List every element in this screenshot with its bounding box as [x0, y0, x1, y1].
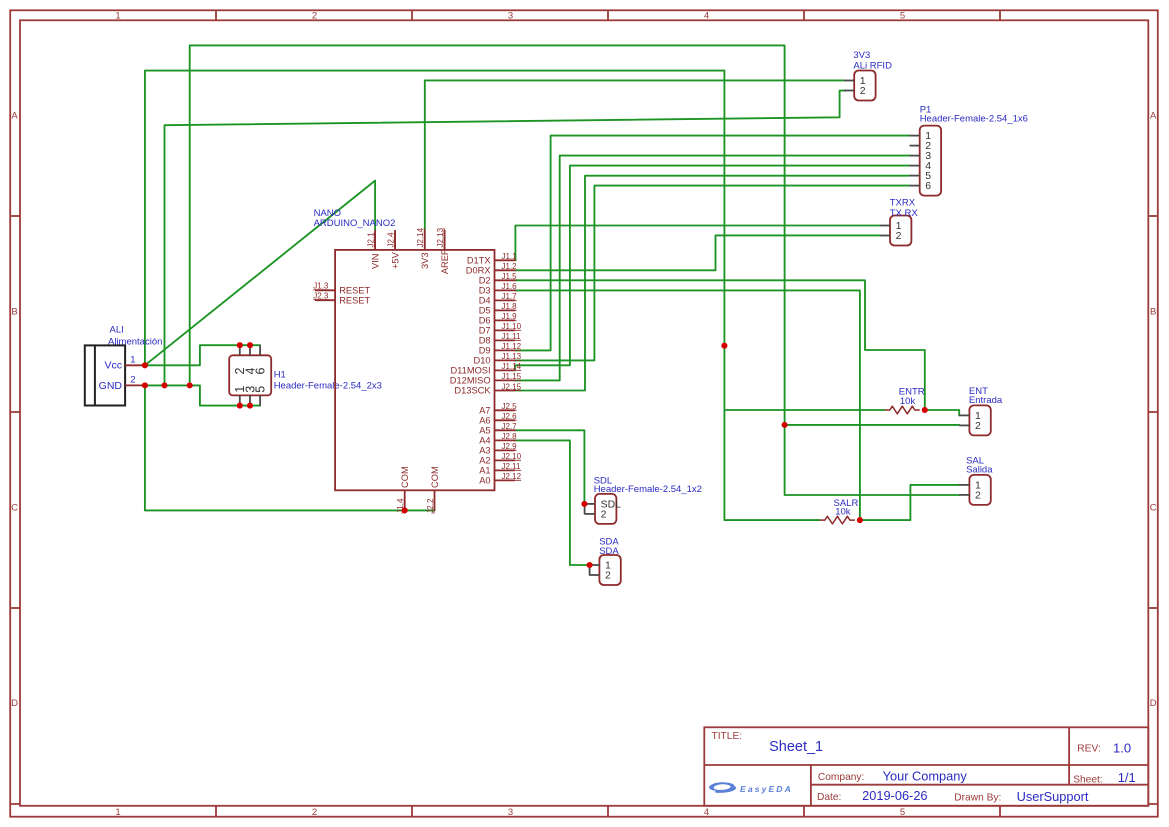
wire VIN diagonal to Vcc node: [145, 181, 375, 366]
svg-text:2: 2: [975, 490, 981, 502]
svg-text:D: D: [1150, 698, 1157, 709]
svg-text:2: 2: [312, 807, 317, 818]
junction node: [721, 343, 727, 349]
wire A5 to SDL pin1: [515, 430, 585, 504]
IC NANO ARDUINO_NANO2 body: [335, 250, 494, 490]
wire D3 to SALR-SAL node: [515, 290, 860, 520]
P1 Header-Female-2.54_1x6 pin 1: [910, 130, 932, 142]
NANO pin COM net J2.2: [426, 466, 440, 513]
wire nano 3V3 to RFID pin1: [425, 80, 845, 230]
TXRX TX RX pin 1: [880, 220, 902, 232]
NANO pin A3 net J2.9: [479, 442, 517, 455]
SDA connector pin 1: [589, 560, 611, 572]
svg-text:REV:: REV:: [1077, 743, 1100, 754]
NANO pin D10 net J1.13: [474, 352, 522, 365]
svg-text:D6: D6: [479, 316, 491, 326]
SDA connector pin 2: [589, 570, 611, 582]
svg-text:Salida: Salida: [966, 465, 993, 476]
svg-text:D10: D10: [474, 356, 491, 366]
svg-text:2: 2: [896, 230, 902, 242]
svg-text:ARDUINO_NANO2: ARDUINO_NANO2: [314, 218, 396, 229]
svg-text:Header-Female-2.54_2x3: Header-Female-2.54_2x3: [274, 381, 382, 392]
wire D1TX to TXRX pin1: [515, 226, 879, 261]
wire GND row up-over to ENT pin2 node: [190, 45, 785, 425]
title block texts: [712, 731, 1103, 804]
svg-text:3V3: 3V3: [420, 252, 430, 269]
svg-text:D2: D2: [479, 276, 491, 286]
connector ALI (Alimentacion): [85, 345, 125, 405]
svg-text:1.0: 1.0: [1113, 740, 1131, 755]
svg-text:TITLE:: TITLE:: [712, 731, 743, 742]
NANO pin A1 net J2.11: [479, 462, 521, 475]
NANO pin A5 net J2.7: [479, 422, 517, 435]
wire node to ENT pin2: [785, 424, 960, 426]
NANO pin D9 net J1.12: [479, 342, 522, 355]
U-3V3 ALi RFID pin 2: [844, 85, 866, 97]
junction node: [237, 342, 243, 348]
NANO pin D0RX net J1.2: [466, 262, 517, 275]
P1 Header-Female-2.54_1x6 pin 6: [910, 180, 932, 192]
SDL Header-Female-2.54_1x2 pin SDL: [585, 499, 621, 511]
svg-text:D12MISO: D12MISO: [450, 376, 491, 386]
SDL Header-Female-2.54_1x2 pin 2: [585, 509, 607, 521]
svg-text:H1: H1: [274, 370, 286, 381]
junction node: [142, 382, 148, 388]
wire SDL pin1-pin2 link: [584, 504, 586, 514]
svg-text:A2: A2: [479, 456, 490, 466]
svg-text:A: A: [11, 111, 18, 122]
svg-text:D9: D9: [479, 346, 491, 356]
H1 pin column stub 2 top: [249, 345, 251, 355]
svg-text:VIN: VIN: [370, 254, 380, 270]
wire GND: RFID pin2 sloped to GND row: [165, 91, 846, 386]
NANO pin D7 net J1.10: [479, 322, 522, 335]
wire GND down to COM pins: [145, 385, 435, 510]
U-3V3 ALi RFID pin 1: [844, 75, 866, 87]
wire branch to ENTR left pin: [724, 409, 884, 411]
connector SDL Header-Female-2.54_1x2: [595, 494, 616, 524]
svg-text:SDA: SDA: [599, 546, 619, 557]
svg-text:D0RX: D0RX: [466, 266, 491, 276]
svg-text:10k: 10k: [900, 396, 916, 407]
P1 Header-Female-2.54_1x6 pin 3: [910, 150, 932, 162]
wire D12MISO to P1 pin3: [515, 156, 910, 381]
svg-text:2: 2: [975, 420, 981, 432]
NANO pin A7 net J2.5: [479, 402, 517, 415]
wire GND to H1 pins 1-3-5: [145, 385, 260, 405]
wire D11MOSI to P1 pin4: [515, 166, 910, 371]
svg-text:ALI: ALI: [110, 325, 124, 336]
svg-text:UserSupport: UserSupport: [1017, 789, 1089, 804]
H1 pin numbers: [233, 368, 267, 393]
svg-text:A: A: [1150, 111, 1157, 122]
svg-text:1/1: 1/1: [1118, 770, 1136, 785]
svg-text:A6: A6: [479, 416, 490, 426]
svg-text:Date:: Date:: [817, 792, 841, 803]
svg-text:D4: D4: [479, 296, 491, 306]
svg-text:Header-Female-2.54_1x2: Header-Female-2.54_1x2: [594, 484, 702, 495]
svg-text:1: 1: [115, 807, 120, 818]
ALI pin 1 Vcc: [104, 355, 144, 372]
svg-text:2: 2: [860, 85, 866, 97]
svg-text:Sheet:: Sheet:: [1073, 774, 1102, 785]
junction node: [187, 382, 193, 388]
H1 pin column stub 1 top: [239, 345, 241, 355]
H1 pin column stub 3 bottom: [259, 395, 261, 405]
wire ENTR right pin to ENT pin1: [925, 410, 959, 415]
NANO pin D3 net J1.6: [479, 282, 517, 295]
NANO pin RESET net J2.3: [313, 292, 370, 306]
P1 Header-Female-2.54_1x6 labels: [920, 105, 1028, 125]
svg-text:4: 4: [704, 807, 709, 818]
svg-text:C: C: [1150, 503, 1157, 514]
svg-text:10k: 10k: [835, 507, 851, 518]
svg-text:D5: D5: [479, 306, 491, 316]
junction node: [581, 501, 587, 507]
NANO pin D2 net J1.5: [479, 272, 517, 285]
P1 Header-Female-2.54_1x6 pin 2: [910, 140, 932, 152]
H1 labels: [274, 370, 382, 392]
junction node: [587, 562, 593, 568]
NANO pin RESET net J1.3: [313, 282, 370, 296]
NANO pin AREF net J2.13: [436, 227, 450, 274]
connector SAL Salida: [969, 475, 990, 505]
SDA connector labels: [599, 537, 619, 557]
H1 pin column stub 2 bottom: [249, 395, 251, 405]
EasyEDA logo: [709, 782, 793, 794]
svg-text:Entrada: Entrada: [969, 395, 1003, 406]
wire D10 to P1 pin6: [515, 186, 910, 361]
svg-text:+5V: +5V: [390, 251, 400, 269]
NANO labels: [314, 208, 396, 229]
svg-text:D8: D8: [479, 336, 491, 346]
H1 pin column stub 3 top: [259, 345, 261, 355]
NANO pin D13SCK net J2.15: [454, 382, 521, 395]
connector TXRX TX RX: [890, 216, 911, 246]
junction node: [161, 382, 167, 388]
junction node: [857, 517, 863, 523]
svg-text:D1TX: D1TX: [467, 256, 491, 266]
wire node down to SALR left pin: [724, 346, 820, 520]
svg-text:2: 2: [130, 375, 135, 386]
svg-text:TX RX: TX RX: [890, 208, 919, 219]
wire SALR right pin to SAL pin1: [860, 485, 959, 520]
P1 Header-Female-2.54_1x6 pin 4: [910, 160, 932, 172]
SAL Salida pin 2: [959, 490, 981, 502]
wire D0RX to TXRX pin2: [515, 235, 880, 270]
NANO pin A0 net J2.12: [479, 472, 521, 485]
svg-text:A4: A4: [479, 436, 490, 446]
wire node down to SAL pin2: [785, 425, 960, 495]
connector U-3V3 ALi RFID: [854, 71, 875, 101]
NANO pin D5 net J1.8: [479, 302, 517, 315]
TXRX TX RX pin 2: [880, 230, 902, 242]
ENT Entrada pin 2: [959, 420, 981, 432]
svg-text:2: 2: [601, 509, 607, 521]
ENT Entrada labels: [969, 386, 1003, 406]
svg-text:COM: COM: [430, 466, 440, 488]
wire D13SCK to P1 pin5: [515, 176, 910, 391]
svg-text:ALi RFID: ALi RFID: [853, 61, 892, 72]
NANO pin D11MOSI net J1.14: [450, 362, 521, 375]
NANO pin A6 net J2.6: [479, 412, 517, 425]
wire Vcc to H1 pins 2-4-6: [145, 345, 260, 365]
NANO pin D4 net J1.7: [479, 292, 517, 305]
svg-text:A1: A1: [479, 466, 490, 476]
svg-text:Your Company: Your Company: [883, 768, 968, 783]
NANO pin A4 net J2.8: [479, 432, 517, 445]
svg-text:GND: GND: [99, 380, 123, 392]
svg-text:D: D: [11, 698, 18, 709]
NANO pin D12MISO net J1.15: [450, 372, 522, 385]
title block: [704, 727, 1148, 806]
svg-text:Company:: Company:: [818, 772, 864, 783]
NANO pin COM net J1.4: [396, 466, 410, 513]
svg-text:B: B: [1150, 307, 1156, 318]
svg-text:AREF: AREF: [440, 249, 450, 274]
U-3V3 ALi RFID labels: [853, 50, 892, 72]
junction node: [237, 403, 243, 409]
SDL Header-Female-2.54_1x2 labels: [594, 475, 702, 495]
svg-text:RESET: RESET: [339, 286, 370, 296]
svg-text:Alimentación: Alimentación: [108, 336, 162, 347]
svg-text:1: 1: [115, 10, 120, 21]
svg-text:A7: A7: [479, 406, 490, 416]
svg-text:D11MOSI: D11MOSI: [450, 366, 490, 376]
H1 pin column stub 1 bottom: [239, 395, 241, 405]
svg-text:A0: A0: [479, 476, 490, 486]
svg-text:A3: A3: [479, 446, 490, 456]
svg-text:D7: D7: [479, 326, 491, 336]
NANO pin VIN net J2.1: [367, 230, 381, 269]
wire SDA pin1-pin2 link: [589, 565, 591, 575]
NANO pin 3V3 net J2.14: [416, 227, 430, 269]
connector P1 Header-Female-2.54_1x6: [920, 126, 941, 196]
junction node: [402, 507, 408, 513]
connector SDA connector: [599, 555, 620, 585]
junction node: [922, 407, 928, 413]
SAL Salida pin 1: [959, 480, 981, 492]
svg-text:4: 4: [704, 10, 709, 21]
svg-text:EasyEDA: EasyEDA: [740, 784, 793, 794]
TXRX TX RX labels: [890, 198, 919, 219]
svg-text:RESET: RESET: [339, 295, 370, 305]
junction node: [782, 422, 788, 428]
svg-text:6: 6: [925, 180, 931, 192]
SAL Salida labels: [966, 456, 993, 476]
svg-text:D3: D3: [479, 286, 491, 296]
wire Vcc: ALI pin1 up-over-down to node: [145, 71, 725, 366]
svg-text:A5: A5: [479, 426, 490, 436]
svg-text:6: 6: [254, 368, 268, 375]
svg-text:Vcc: Vcc: [104, 360, 122, 372]
svg-text:D13SCK: D13SCK: [454, 386, 491, 396]
svg-text:3V3: 3V3: [853, 50, 870, 61]
NANO pin A2 net J2.10: [479, 452, 521, 465]
resistor ENTR 10k: [885, 387, 925, 414]
svg-text:C: C: [11, 503, 18, 514]
svg-text:3: 3: [508, 807, 513, 818]
NANO pin D8 net J1.11: [479, 332, 521, 345]
NANO pin D6 net J1.9: [479, 312, 517, 325]
wire A4 to SDA pin1: [515, 440, 590, 565]
connector ENT Entrada: [969, 405, 990, 435]
svg-text:3: 3: [508, 10, 513, 21]
svg-text:Drawn By:: Drawn By:: [954, 793, 1001, 804]
junction node: [247, 342, 253, 348]
svg-text:B: B: [11, 307, 17, 318]
junction node: [247, 403, 253, 409]
ALI pin 2 GND: [99, 375, 145, 392]
svg-text:1: 1: [130, 355, 135, 366]
header H1 Header-Female-2.54_2x3: [229, 355, 271, 395]
ENT Entrada pin 1: [959, 410, 981, 422]
ALI labels: [108, 325, 162, 348]
NANO pin D1TX net J1.1: [467, 252, 517, 265]
resistor SALR 10k: [820, 498, 859, 524]
svg-text:2: 2: [312, 10, 317, 21]
wire D2 to ENTR-ENT node: [515, 280, 925, 410]
svg-text:2: 2: [605, 570, 611, 582]
svg-text:COM: COM: [400, 466, 410, 488]
svg-text:5: 5: [900, 10, 905, 21]
junction node: [142, 362, 148, 368]
svg-text:Sheet_1: Sheet_1: [769, 739, 823, 755]
NANO pin +5V net J2.4: [387, 230, 401, 269]
svg-text:2019-06-26: 2019-06-26: [862, 788, 927, 803]
P1 Header-Female-2.54_1x6 pin 5: [910, 170, 932, 182]
svg-text:5: 5: [254, 386, 268, 393]
svg-text:Header-Female-2.54_1x6: Header-Female-2.54_1x6: [920, 113, 1028, 124]
svg-text:5: 5: [900, 807, 905, 818]
wire D9 to P1 pin1: [515, 136, 910, 351]
